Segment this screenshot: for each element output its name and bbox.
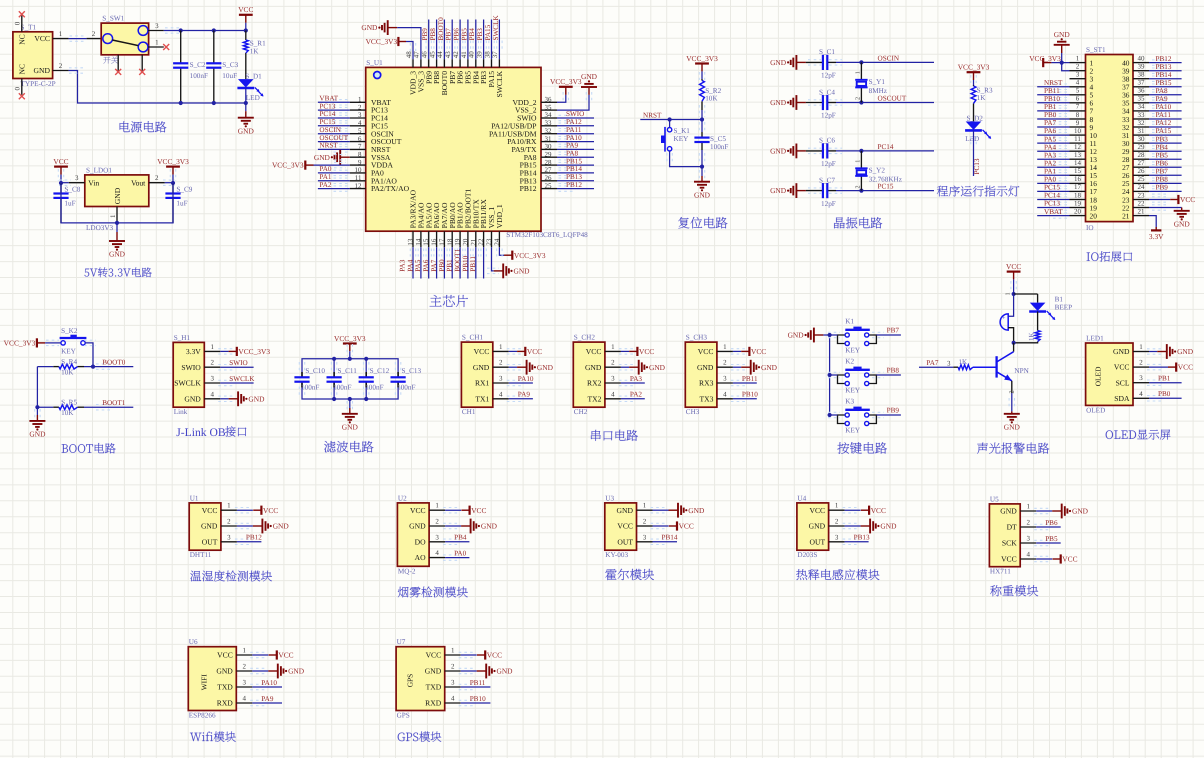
S_U1 pin 16 PA6/AO (430, 202, 441, 247)
S_ST1 pin 35 (1122, 95, 1149, 108)
svg-text:VCC: VCC (474, 347, 490, 356)
wire S_ST1.13 net PA3 (1037, 157, 1069, 162)
S_C10 designator (305, 367, 325, 375)
section: OLED display (1086, 334, 1194, 439)
svg-text:2: 2 (155, 174, 159, 182)
title wifi module (190, 732, 236, 742)
svg-text:NRST: NRST (643, 111, 662, 119)
net label PA0 (454, 549, 467, 557)
LED1 part name OLED (1086, 406, 1105, 414)
S_SW1 lever (112, 40, 138, 46)
U3 part name KY-003 (605, 551, 628, 559)
crystal S_Y2 body (855, 168, 867, 176)
wire S_ST1.37 net PB15 (1149, 84, 1182, 90)
wire S_U1.7 net NRST (318, 147, 350, 152)
component S_H1 body (173, 342, 204, 407)
wire S_C7 to crystal (836, 190, 861, 192)
net label PA3 (630, 375, 643, 383)
ground power circuit (238, 118, 255, 136)
svg-text:1K: 1K (977, 94, 987, 102)
ground at U3.1 (669, 503, 705, 518)
svg-text:DT: DT (1007, 523, 1017, 532)
svg-text:GND: GND (537, 363, 554, 372)
section: crystal oscillator circuit (770, 48, 934, 228)
net label BOOT1 (102, 399, 126, 407)
junction C2 bottom (179, 101, 183, 105)
svg-text:SWIO: SWIO (566, 110, 584, 118)
junction BOOT0 (91, 365, 95, 369)
junction filter t2 (348, 357, 352, 361)
svg-text:S_Y1: S_Y1 (869, 78, 886, 86)
wire S_ST1.26 net PB7 (1149, 173, 1182, 178)
wire S_H1.3 net SWCLK (218, 380, 253, 385)
svg-text:PB10: PB10 (470, 695, 486, 703)
S_U1 pin 29 PA8 (524, 150, 557, 161)
resistor S_R1 (243, 40, 248, 53)
net label PA9 (1156, 95, 1169, 103)
wire S_U1.29 net PA8 (557, 155, 594, 160)
wire S_U1 VSS_3 to GND (397, 28, 421, 60)
net label PA2 (630, 391, 643, 399)
section: serial port circuits (461, 334, 777, 441)
wire S_CH2.4 net PA2 (619, 396, 645, 401)
component U7 body (396, 647, 445, 711)
ground at S_CH1.2 (517, 360, 553, 375)
svg-text:PA9: PA9 (518, 391, 531, 399)
net label PB12 (1156, 55, 1172, 63)
S_U1 pin 46 PB9 (421, 51, 434, 84)
S_ST1 pin 5 (1070, 87, 1094, 100)
svg-text:3: 3 (835, 533, 839, 541)
wire U2.3 net PB4 (443, 539, 469, 544)
net label PB15 (1156, 79, 1172, 87)
S_ST1 pin 33 (1122, 111, 1149, 124)
S_U1 pin 23 VSS_1 (485, 207, 496, 248)
net label PB9 (1156, 184, 1169, 192)
S_H1 pin 2 SWIO (181, 359, 220, 372)
svg-text:OUT: OUT (202, 537, 218, 546)
power VCC_3V3 at S_U1 VDD_3 (366, 37, 406, 46)
wire S_ST1.18 net PC14 (1037, 197, 1069, 202)
ground at S_U1 VSSA (314, 150, 350, 165)
svg-text:VCC_3V3: VCC_3V3 (550, 77, 582, 86)
capacitor S_C6 (823, 143, 827, 158)
svg-text:S_C2: S_C2 (190, 61, 206, 69)
wire LDO bottom rail (61, 183, 173, 223)
wire S_U1.17 net PA7 (442, 247, 447, 278)
crystal S_Y1 pin2 number (854, 97, 861, 100)
pushbutton S_K2 (60, 335, 87, 345)
K3 designator (845, 397, 854, 405)
wire U5.4 to VCC (1034, 556, 1052, 561)
S_ST1 pin 14 (1070, 159, 1098, 172)
svg-text:S_C6: S_C6 (819, 137, 835, 145)
power VCC_3V3 at LDO out (157, 157, 189, 175)
wire gnd stem reset (699, 167, 704, 182)
svg-text:26: 26 (545, 174, 553, 182)
capacitor S_C10 lead marks (299, 362, 304, 397)
power VCC_3V3 at S_ST1.1 (1029, 54, 1061, 67)
capacitor S_C11 leads (333, 359, 335, 399)
wire LED1.3 net PB1 (1147, 380, 1182, 385)
svg-text:VCC: VCC (527, 347, 542, 356)
S_ST1 pin 17 (1070, 183, 1098, 196)
S_LDO1 part name LDO3V3 (86, 224, 114, 232)
svg-text:28: 28 (1138, 151, 1146, 159)
wire S_U1.16 net PA6 (434, 247, 439, 278)
S_T1 top pin stub (14, 16, 22, 32)
wire filter top rail (302, 359, 398, 377)
svg-text:VCC: VCC (1114, 363, 1130, 372)
svg-text:PB10: PB10 (1044, 95, 1060, 103)
svg-text:0: 0 (14, 87, 22, 91)
S_C5 value 100nF (710, 143, 728, 151)
svg-text:2: 2 (1076, 63, 1080, 71)
LED1 rotated label OLED (1093, 366, 1102, 386)
tact switch K2 (838, 367, 877, 386)
S_SW1 left contact (103, 34, 113, 44)
capacitor S_C3 leads (213, 31, 215, 104)
wire gnd to bus (823, 334, 829, 336)
svg-text:PB13: PB13 (566, 173, 582, 181)
ground at S_C6 (770, 144, 806, 159)
S_K2 value KEY (61, 347, 77, 355)
S_U1 pin 22 PB11/RX (477, 199, 488, 248)
wire S_CH2.3 net PA3 (619, 380, 645, 385)
svg-text:PB11: PB11 (470, 679, 486, 687)
S_U1 pin 35 VSS_2 (515, 103, 557, 114)
power VCC_3V3 at S_U1 VDD_2 (550, 77, 582, 95)
svg-text:OUT: OUT (617, 537, 633, 546)
power VCC_3V3 indicator (958, 63, 990, 80)
S_T1 pin 2 stub (53, 62, 69, 71)
junction D1 bottom (244, 101, 248, 105)
S_U1 pin 9 VDDA (350, 158, 394, 169)
S_ST1 pin 28 (1122, 151, 1149, 164)
power VCC at S_H1.1 (229, 347, 271, 356)
LED1 designator (1086, 334, 1104, 342)
U2 pin 4 AO (415, 549, 445, 562)
wire U5.2 net PB6 (1034, 524, 1061, 529)
no-connect X on S_T1 bottom pin (19, 93, 25, 99)
wire S_ST1.35 net PA9 (1149, 100, 1182, 105)
svg-text:VCC_3V3: VCC_3V3 (686, 54, 718, 63)
svg-text:9: 9 (358, 158, 362, 166)
capacitor S_C4 leads (806, 100, 842, 105)
S_ST1 pin 16 (1070, 175, 1098, 188)
S_CH3 pin 3 RX3 (699, 375, 733, 388)
wire gnd stem BOOT (35, 409, 40, 421)
section: sound and light alarm circuit (919, 262, 1072, 454)
svg-text:39: 39 (475, 51, 483, 59)
svg-text:PB9: PB9 (421, 28, 429, 41)
net label PB5 (460, 28, 468, 41)
wire NRST to K1 (669, 120, 671, 128)
svg-text:PB1: PB1 (446, 259, 454, 272)
svg-text:GND: GND (273, 522, 290, 531)
net label PC15 (1044, 184, 1060, 192)
svg-text:S_C12: S_C12 (370, 367, 390, 375)
svg-text:PA9: PA9 (1156, 95, 1169, 103)
S_U1 pin 21 PB10/TX (469, 199, 480, 247)
svg-text:16: 16 (1074, 175, 1082, 183)
svg-text:2: 2 (451, 663, 455, 671)
K2 value KEY (845, 386, 861, 394)
power VCC at U5.4 (1053, 554, 1078, 563)
svg-text:35: 35 (545, 103, 553, 111)
power VCC_3V3 filter (334, 334, 366, 351)
crystal S_Y1 leads (860, 62, 862, 102)
wire S_U1.6 net OSCOUT (318, 139, 350, 144)
S_T1 part name TYPE-C-2P (21, 80, 56, 88)
svg-text:1: 1 (358, 96, 362, 104)
junction filter b1 (332, 397, 336, 401)
svg-text:GND: GND (770, 98, 787, 107)
svg-text:1: 1 (109, 214, 117, 218)
wire S_U1.34 net SWIO (557, 115, 594, 120)
U5 designator (990, 495, 999, 503)
svg-text:OSCOUT: OSCOUT (878, 95, 907, 103)
net label PB0 (438, 259, 446, 272)
svg-text:1: 1 (723, 343, 727, 351)
S_U1 pin 1 VBAT (350, 96, 391, 107)
S_T1 pin name GND (34, 66, 51, 75)
wire S_C6 to crystal (836, 150, 861, 152)
U3 pin 2 VCC (617, 518, 652, 531)
svg-text:43: 43 (444, 51, 452, 59)
svg-text:PA12: PA12 (1156, 119, 1172, 127)
ground at U5.1 (1052, 504, 1088, 519)
svg-text:D203S: D203S (797, 551, 817, 559)
junction C2 top (179, 28, 183, 32)
wire alarm to buzzer (1004, 292, 1013, 316)
svg-text:PA1: PA1 (1044, 168, 1057, 176)
svg-text:GPS: GPS (397, 712, 410, 720)
S_U1 pin 7 NRST (350, 143, 391, 154)
svg-text:GND: GND (109, 250, 126, 259)
wire S_ST1.31 net PA15 (1149, 132, 1182, 137)
svg-text:S_CH1: S_CH1 (462, 334, 484, 342)
svg-text:BOOT0: BOOT0 (437, 17, 445, 41)
wire S_ST1.4 net NRST (1037, 84, 1069, 90)
svg-text:BOOT1: BOOT1 (102, 399, 126, 407)
svg-text:PA2: PA2 (319, 181, 332, 189)
wire VCC_3V3 stem (170, 169, 175, 183)
svg-text:NC: NC (18, 34, 27, 45)
svg-text:PB1: PB1 (1158, 375, 1171, 383)
net label PB13 (854, 534, 870, 542)
svg-text:2: 2 (643, 518, 647, 526)
S_Y1 designator (869, 78, 886, 86)
svg-text:J-Link OB: J-Link OB (176, 426, 226, 439)
S_LDO1 pin name GND (113, 187, 122, 204)
S_ST1 pin 29 (1122, 143, 1149, 156)
S_CH1 pin 1 VCC (474, 343, 509, 356)
wire bus to K3 (828, 412, 840, 417)
title reset circuit (678, 217, 727, 228)
power 3.3V at S_ST1.21 (1149, 227, 1164, 241)
svg-text:3.3V: 3.3V (186, 347, 201, 356)
ground at U7.2 (477, 664, 513, 679)
S_U1 pin 45 PB8 (428, 51, 441, 84)
svg-text:SCK: SCK (1002, 539, 1017, 548)
component S_T1 TYPE-C-2P body (13, 32, 53, 79)
svg-text:PB12: PB12 (1156, 55, 1172, 63)
svg-text:VCC: VCC (586, 347, 602, 356)
svg-text:S_C4: S_C4 (819, 88, 835, 96)
svg-text:GND: GND (1174, 219, 1191, 228)
net label PA11 (1156, 111, 1172, 119)
svg-text:GND: GND (201, 522, 218, 531)
svg-text:GND: GND (425, 667, 442, 676)
svg-text:VCC: VCC (202, 506, 218, 515)
wire S_U1.22 net PB11 (481, 247, 486, 278)
svg-text:VCC: VCC (617, 522, 633, 531)
U4 pin 1 VCC (809, 502, 844, 515)
U5 part name HX711 (990, 568, 1011, 576)
U7 rotated label GPS (405, 674, 414, 688)
net label PB10 (461, 255, 469, 271)
svg-text:12pF: 12pF (821, 72, 836, 80)
capacitor S_C1 leads (806, 60, 842, 65)
svg-text:OLED: OLED (1086, 406, 1105, 414)
capacitor S_C12 leads (365, 359, 367, 399)
wire K2 to BOOT0 (84, 340, 96, 366)
svg-text:0: 0 (14, 21, 22, 25)
svg-text:37: 37 (1138, 79, 1146, 87)
S_C13 value 100nF (397, 383, 415, 391)
K3 value KEY (845, 426, 861, 434)
svg-text:18: 18 (1074, 191, 1082, 199)
power VCC_3V3 reset (686, 54, 718, 72)
S_LDO1 pin 1 stub (109, 207, 117, 223)
S_C12 value 100nF (365, 383, 383, 391)
svg-text:4: 4 (1076, 79, 1080, 87)
svg-text:1: 1 (227, 502, 231, 510)
wire S_CH2.2 to GND (619, 365, 634, 370)
ground at S_CH3.2 (741, 360, 777, 375)
svg-text:PB5: PB5 (1156, 151, 1169, 159)
wire S_ST1.33 net PA11 (1149, 116, 1182, 121)
S_U1 pin 12 PA2/TX/AO (350, 182, 410, 193)
svg-text:B1: B1 (1055, 295, 1064, 303)
S_ST1 pin 21 (1122, 207, 1149, 220)
svg-text:PB7: PB7 (1156, 168, 1169, 176)
wire U6.2 to GND (250, 668, 268, 673)
wire S_H1.4 to GND (218, 396, 233, 401)
S_U1 pin 30 PA9/TX (511, 143, 557, 154)
wire GND to S_ST1.2 (1062, 45, 1070, 71)
component U4 body (797, 503, 829, 550)
svg-text:13: 13 (1074, 151, 1082, 159)
wire S_U1.14 net PA4 (418, 247, 423, 278)
svg-text:3: 3 (1076, 71, 1080, 79)
net label PA2 (1044, 159, 1057, 167)
S_D1 designator (245, 72, 262, 80)
svg-text:PA10: PA10 (261, 679, 277, 687)
S_CH1 pin 2 GND (473, 359, 509, 372)
ground at U6.2 (268, 664, 304, 679)
wire S_ST1.21 to 3.3V (1149, 216, 1156, 227)
wire net OSCIN (861, 61, 934, 63)
wire S_U1.41 net PB5 (465, 20, 470, 60)
wire U1.3 net PB12 (235, 539, 262, 544)
svg-text:BOOT0: BOOT0 (102, 359, 126, 367)
svg-text:PA11: PA11 (566, 126, 582, 134)
svg-text:31: 31 (1138, 127, 1146, 135)
junction C3 top (212, 28, 216, 32)
svg-text:PB8: PB8 (429, 28, 437, 41)
svg-text:PB6: PB6 (1045, 519, 1058, 527)
svg-text:15: 15 (1074, 167, 1082, 175)
ground BOOT (29, 421, 46, 439)
wire S_U1.37 net SWCLK (497, 20, 502, 60)
wire S_ST1.6 net PB10 (1037, 100, 1069, 105)
ground at U1.2 (253, 519, 289, 534)
S_ST1 pin 8 (1070, 111, 1094, 124)
svg-text:MQ-2: MQ-2 (398, 567, 416, 575)
svg-text:3: 3 (435, 533, 439, 541)
S_C3 designator (222, 61, 238, 69)
S_U1 pin 10 PA0 (350, 166, 384, 177)
LED1 pin 3 SCL (1116, 374, 1149, 387)
net label PA9 (518, 391, 531, 399)
svg-text:23: 23 (1138, 191, 1146, 199)
LED S_D1 (237, 79, 263, 96)
net label PB3 (476, 28, 484, 41)
svg-text:PB14: PB14 (1156, 71, 1172, 79)
S_C3 value 10uF (222, 72, 237, 80)
S_U1 pin 26 PB13 (520, 174, 557, 185)
svg-text:36: 36 (1138, 87, 1146, 95)
net label OSCIN (878, 54, 900, 62)
wire S_CH3.3 net PB11 (731, 380, 757, 385)
wire S_ST1.36 net PA8 (1149, 92, 1182, 97)
U7 designator (397, 638, 406, 646)
wire S_U1.25 net PB12 (557, 186, 594, 191)
title DHT11 module (190, 570, 272, 581)
net label PB5 (1156, 151, 1169, 159)
svg-text:PA1: PA1 (319, 173, 332, 181)
U7 part name GPS (397, 712, 410, 720)
S_ST1 pin 26 (1122, 167, 1149, 180)
ground at S_U1 VSS_1 (494, 264, 530, 279)
S_ST1 pin 34 (1122, 103, 1149, 116)
wire S_U1.19 net PB1 (457, 247, 462, 278)
net label PB14 (566, 165, 582, 173)
U3 pin 3 OUT (617, 533, 652, 546)
wire bus to K1 (828, 332, 840, 337)
net label PB9 (421, 28, 429, 41)
title MQ-2 module (398, 587, 468, 598)
svg-text:9: 9 (1076, 119, 1080, 127)
power VCC at U7.1 (477, 650, 502, 659)
wire S_ST1.20 net VBAT (1037, 213, 1069, 218)
section: sensor modules (188, 494, 1088, 742)
svg-text:SWCLK: SWCLK (492, 15, 500, 41)
wire S_U1.1 net VBAT (318, 100, 350, 105)
S_R2 designator (705, 87, 721, 95)
svg-text:TXD: TXD (217, 683, 233, 692)
title J-Link (176, 426, 246, 439)
net label PA11 (566, 126, 582, 134)
svg-text:VCC: VCC (1062, 555, 1077, 564)
net label PB5 (1045, 535, 1058, 543)
wire R5 left (37, 406, 53, 408)
wire S_U1.21 net PB10 (473, 247, 478, 278)
svg-text:GPS: GPS (405, 674, 414, 688)
B1 designator (1055, 295, 1064, 303)
